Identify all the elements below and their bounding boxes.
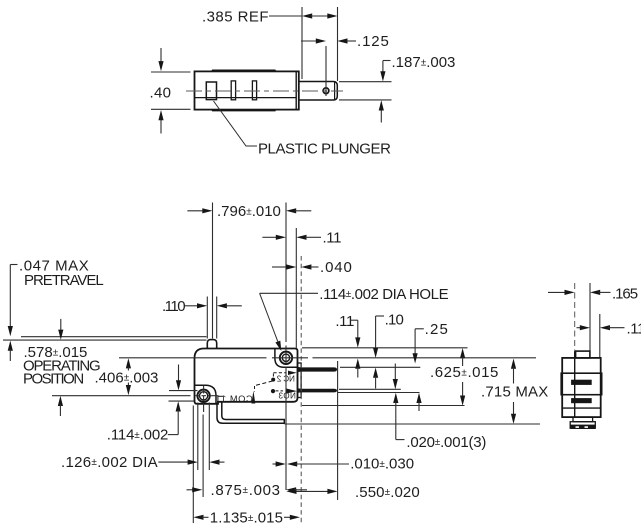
dimension .40 bbox=[150, 48, 191, 134]
NO terminal bottom extension bbox=[338, 392, 420, 394]
svg-text:.11: .11 bbox=[627, 321, 641, 338]
polarity mark (mirrored print) bbox=[218, 396, 223, 402]
dimension .114 +/-.002 (hole diameter) bbox=[107, 365, 181, 444]
svg-text:.114±​.002 DIA HOLE: .114±​.002 DIA HOLE bbox=[319, 286, 448, 303]
terminal NC (quick-connect blade) bbox=[298, 367, 338, 372]
extension line plunger center bbox=[212, 203, 214, 339]
extension line plunger right edge bbox=[216, 297, 218, 339]
extension line hole diameter left bbox=[197, 403, 199, 471]
dimension .047 MAX PRETRAVEL bbox=[8, 257, 104, 361]
dimension .385 REF bbox=[202, 7, 338, 81]
svg-text:POSITION: POSITION bbox=[23, 371, 83, 388]
terminal NO (quick-connect blade) bbox=[298, 388, 338, 393]
side view centerline dashed bbox=[574, 283, 576, 351]
internal circuit: NO arrow bbox=[276, 388, 298, 393]
label .114 +/-.002 DIA HOLE with leader bbox=[260, 286, 449, 351]
svg-text:.165: .165 bbox=[612, 285, 638, 302]
extension line hole diameter right bbox=[208, 403, 210, 471]
dimension .10 bbox=[373, 311, 404, 388]
dimension .625 +/-.015 bbox=[430, 348, 499, 406]
lower hole centerline horizontal bbox=[52, 395, 219, 397]
extension line body right edge up bbox=[295, 228, 297, 348]
dimension .11 (side view) bbox=[577, 321, 641, 338]
operating position line bbox=[3, 339, 207, 341]
svg-text:.040: .040 bbox=[320, 259, 353, 276]
free position line bbox=[21, 336, 207, 338]
label NC 2 (mirrored print) bbox=[276, 375, 295, 384]
mounting boss top-right bbox=[275, 349, 298, 368]
internal circuit: COM arrow bbox=[252, 391, 256, 404]
svg-text:COM 1: COM 1 bbox=[220, 394, 252, 404]
side view plunger edge extension bbox=[589, 283, 591, 351]
svg-text:.11: .11 bbox=[323, 230, 342, 247]
svg-text:.10: .10 bbox=[385, 311, 404, 328]
internal circuit: NO contact dot bbox=[271, 389, 275, 393]
body bottom extension right bbox=[302, 405, 465, 407]
extension line plunger left edge bbox=[206, 297, 208, 339]
dimension .550 +/-.020 bbox=[286, 484, 420, 501]
svg-text:.126±​.002 DIA: .126±​.002 DIA bbox=[61, 454, 158, 471]
terminal base strip bbox=[298, 363, 302, 398]
plunger assembly body (top detail view) bbox=[195, 70, 299, 111]
plunger tip (top view) bbox=[299, 82, 338, 101]
svg-text:.715 MAX: .715 MAX bbox=[481, 383, 548, 400]
extension line body left edge down bbox=[192, 406, 194, 524]
plunger slot 1 bbox=[206, 82, 216, 100]
body top extension right bbox=[302, 347, 468, 349]
svg-text:NO3: NO3 bbox=[278, 392, 296, 401]
svg-text:.40: .40 bbox=[150, 85, 172, 102]
dimension .11 (hole to body edge) bbox=[262, 230, 341, 247]
dimension .11 (top to hole center) bbox=[335, 313, 360, 377]
dimension .020 +/-.001(3) bbox=[393, 364, 487, 451]
dimension .010 +/-.030 bbox=[273, 456, 415, 473]
side view terminal slot lower bbox=[571, 398, 592, 403]
plunger slot 2 bbox=[231, 81, 235, 100]
leader PLASTIC PLUNGER bbox=[214, 101, 392, 157]
internal circuit: dashed link to NC bbox=[273, 371, 296, 378]
centerline (top view) bbox=[186, 90, 343, 92]
side view body outline bbox=[561, 351, 602, 417]
dimension .25 bbox=[413, 321, 450, 411]
COM terminal bottom extension bbox=[285, 423, 541, 425]
NO terminal top extension bbox=[339, 388, 401, 390]
hole tangent line upper bbox=[169, 390, 198, 392]
hole centerline horizontal bbox=[119, 357, 536, 359]
dimension .187 +/-.003 bbox=[339, 54, 455, 123]
dimension .875 +/-.003 bbox=[187, 482, 308, 499]
svg-text:.11: .11 bbox=[335, 313, 354, 330]
side view body edge extension bbox=[599, 314, 601, 358]
dimension .040 bbox=[272, 259, 353, 276]
mounting hole bottom-left bbox=[197, 390, 209, 402]
internal circuit: dashed common lever bbox=[255, 381, 273, 392]
terminal centerline dashed bbox=[300, 256, 302, 523]
dimension .715 MAX bbox=[481, 359, 548, 424]
terminal COM (bent bottom terminal) bbox=[217, 403, 284, 424]
svg-text:1.135±​.015: 1.135±​.015 bbox=[210, 510, 283, 527]
svg-text:.125: .125 bbox=[357, 33, 390, 50]
svg-text:.020±​.001(3): .020±​.001(3) bbox=[406, 434, 486, 451]
dimension .126 +/-.002 DIA bbox=[61, 454, 225, 471]
plunger slot 3 bbox=[252, 81, 256, 100]
dimension .165 bbox=[548, 285, 638, 302]
dimension .125 bbox=[301, 33, 390, 96]
extension line terminal end bbox=[337, 361, 339, 500]
extension line hole center vertical bbox=[285, 203, 287, 491]
label NO3 (mirrored print) bbox=[278, 392, 296, 401]
dimension .110 bbox=[162, 298, 242, 315]
svg-text:.385 REF: .385 REF bbox=[202, 8, 269, 25]
svg-text:PLASTIC PLUNGER: PLASTIC PLUNGER bbox=[258, 140, 391, 157]
dimension .406 +/-.003 bbox=[95, 358, 159, 395]
side view terminal slot upper bbox=[571, 380, 592, 385]
switch body outline (front view) bbox=[195, 349, 298, 404]
mounting hole top-right bbox=[280, 352, 292, 364]
hole tangent line lower bbox=[169, 400, 195, 402]
side view plunger cap bbox=[576, 351, 590, 358]
internal circuit: NC contact dot bbox=[271, 378, 275, 382]
svg-text:.110: .110 bbox=[162, 298, 185, 315]
dimension .796 +/-.010 bbox=[187, 203, 311, 220]
side view bottom terminal bbox=[570, 417, 595, 429]
extension line lower hole center bbox=[202, 386, 205, 498]
dimension 1.135 +/-.015 bbox=[193, 510, 300, 527]
svg-text:.25: .25 bbox=[425, 321, 449, 338]
NC terminal top extension bbox=[340, 366, 420, 368]
svg-text:PRETRAVEL: PRETRAVEL bbox=[24, 272, 103, 289]
dimension .578 +/-.015 OPERATING POSITION bbox=[23, 319, 100, 416]
label COM 1 (mirrored print) bbox=[220, 394, 252, 404]
plunger button (front view) bbox=[207, 340, 216, 349]
mounting boss bottom-left bbox=[195, 385, 217, 404]
